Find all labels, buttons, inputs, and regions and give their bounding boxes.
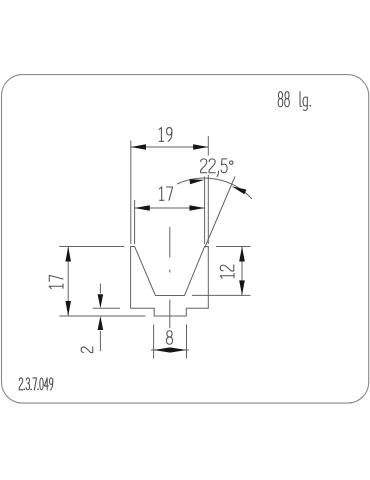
dimension 17 top opening: text: [159, 187, 172, 200]
dimension 2 step: extension line: [93, 307, 120, 309]
dimension 19: extension lines: [131, 136, 209, 244]
dimension 19: dimension line: [131, 146, 209, 148]
drawing number 2.3.7.049: [19, 378, 53, 390]
dimension 12 V-depth: extension lines: [192, 247, 251, 296]
dimension 2 step: upper leader: [99, 284, 101, 294]
dimension 17 top opening: arrowheads: [135, 205, 150, 211]
dimension 12 V-depth: text: [220, 265, 234, 278]
dimension 2 step: text: [81, 347, 93, 353]
dimension 8 tang: text: [166, 331, 172, 344]
dimension 8 tang: extension lines: [154, 325, 187, 359]
dimension 8 tang: dimension line: [151, 349, 189, 351]
dimension 17 body height: dimension line: [67, 247, 69, 317]
title 88 lg. part 2: [300, 92, 311, 111]
dimension 19: arrowheads: [131, 144, 146, 150]
dimension 8 tang: arrowheads: [154, 347, 170, 352]
dimension 17 body height: text: [49, 275, 63, 288]
dimension 12 V-depth: dimension line: [241, 247, 243, 296]
title 88 lg. part 1: [278, 92, 289, 107]
frame border: [2, 75, 369, 404]
dimension 17 top opening: dimension line: [135, 207, 205, 209]
dimension 2 step: arrowheads: [98, 294, 104, 308]
dimension 2 step: lower leader: [99, 331, 101, 352]
angle 22.5: text: [201, 159, 233, 177]
center line: [169, 227, 171, 328]
angle 22.5: dimension arc: [177, 178, 252, 199]
angle 22.5: flank extension reference line: [205, 177, 235, 248]
dimension 12 V-depth: arrowheads: [239, 247, 245, 262]
dimension 17 body height: arrowheads: [65, 247, 71, 262]
angle 22.5: arrowheads: [190, 179, 205, 184]
die profile outline: [131, 247, 209, 317]
dimension 17 body height: extension lines: [59, 247, 145, 317]
dimension 17 top opening: extension lines: [135, 177, 205, 245]
dimension 19: text: [159, 128, 172, 142]
